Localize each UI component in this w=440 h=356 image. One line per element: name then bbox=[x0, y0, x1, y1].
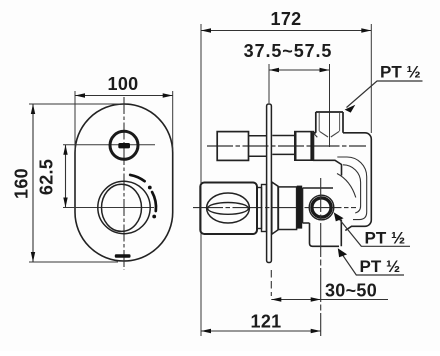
faceplate vertical centerline bbox=[123, 97, 125, 270]
dim 160 extension line top bbox=[29, 103, 120, 105]
diverter stem rear bbox=[272, 136, 294, 155]
scale tick arc 1 bbox=[130, 175, 144, 181]
boss arc over supply bbox=[337, 174, 356, 198]
dimension 30~50 bbox=[271, 281, 388, 302]
dimension 62.5 bbox=[37, 145, 68, 208]
dimension 121 bbox=[201, 312, 321, 334]
big knob horizontal centerline bbox=[63, 207, 154, 209]
body front dark flange bbox=[297, 186, 302, 229]
elbow inner wall 2 bbox=[343, 165, 361, 213]
scale tick dot 1 bbox=[148, 186, 152, 190]
diverter bonnet bbox=[295, 132, 318, 161]
dim 100 extension line left bbox=[74, 91, 76, 150]
svg-text:62.5: 62.5 bbox=[37, 159, 57, 195]
dimension 37.5~57.5 bbox=[244, 41, 333, 72]
diverter stem front bbox=[249, 136, 267, 157]
escutcheon cap front bbox=[262, 185, 267, 232]
small diverter knob bbox=[110, 131, 138, 159]
supply pipe section ring bbox=[312, 198, 331, 217]
elbow inner wall 1 bbox=[337, 157, 366, 220]
supply pipe section outer bbox=[309, 195, 334, 220]
scale tick dot 2 bbox=[152, 215, 156, 219]
diverter knob (side) bbox=[217, 132, 248, 161]
knob rear ring bbox=[257, 188, 262, 229]
big knob inner ellipse bbox=[102, 184, 142, 231]
scale tick arc 2 bbox=[152, 192, 156, 211]
dim 100 extension line right bbox=[172, 91, 174, 150]
valve body block bbox=[303, 188, 342, 246]
dim 160 extension line bottom bbox=[29, 261, 118, 263]
svg-text:37.5~57.5: 37.5~57.5 bbox=[244, 41, 333, 61]
svg-text:100: 100 bbox=[108, 74, 139, 94]
dimension 160 bbox=[12, 104, 36, 262]
top port stub PT1/2 bbox=[316, 112, 343, 137]
top port centerline bbox=[329, 64, 331, 147]
svg-text:172: 172 bbox=[271, 9, 302, 29]
temperature knob (side) bbox=[200, 183, 257, 235]
leader PT1/2 top bbox=[345, 63, 423, 113]
knob grip outer ellipse bbox=[207, 193, 250, 223]
svg-text:PT ½: PT ½ bbox=[380, 63, 421, 82]
dimension 100 bbox=[75, 74, 173, 98]
svg-text:PT ½: PT ½ bbox=[360, 257, 401, 276]
leader PT1/2 middle bbox=[334, 212, 410, 247]
bottom assembly centerline bbox=[193, 207, 356, 209]
faceplate outline bbox=[75, 104, 173, 261]
small knob slot bbox=[118, 143, 130, 148]
knob grip inner lens bbox=[208, 203, 249, 215]
small knob horizontal centerline bbox=[63, 144, 155, 146]
escutcheon flange rear bbox=[272, 182, 278, 234]
valve tee body bbox=[313, 133, 365, 176]
wall plate (edge view) bbox=[267, 104, 272, 263]
dimension 172 bbox=[201, 9, 371, 33]
dim 37.5~57.5 wall extension line bbox=[268, 64, 270, 103]
logo mark bbox=[115, 254, 131, 258]
big temperature knob outer circle bbox=[98, 181, 150, 233]
top assembly centerline bbox=[207, 145, 366, 147]
leader PT1/2 bottom bbox=[338, 248, 404, 276]
svg-text:30~50: 30~50 bbox=[325, 281, 377, 301]
cartridge housing cylinder bbox=[278, 187, 296, 230]
svg-text:PT ½: PT ½ bbox=[365, 229, 406, 248]
wall line dashed below plate bbox=[270, 270, 272, 296]
elbow outer wall bbox=[345, 133, 371, 231]
dim 172 extension line right bbox=[370, 24, 372, 133]
supply pipe vertical centerline bbox=[320, 178, 322, 336]
shared extension line left (172/121) bbox=[200, 24, 202, 336]
svg-text:160: 160 bbox=[12, 168, 32, 199]
svg-text:121: 121 bbox=[251, 312, 282, 332]
